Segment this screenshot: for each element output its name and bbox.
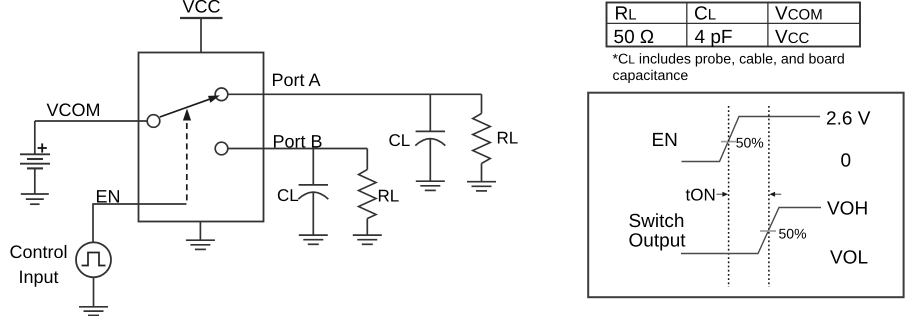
table column divider 2	[767, 3, 769, 47]
tON arrow right	[775, 193, 782, 195]
capacitor CL (Port A)	[416, 130, 445, 132]
switch output waveform	[681, 208, 821, 254]
wire EN from pulse source to box	[93, 204, 187, 243]
svg-text:EN: EN	[652, 130, 678, 151]
dotted cursor line left (50% of EN)	[728, 106, 730, 287]
svg-text:RL: RL	[615, 4, 637, 25]
svg-text:Port A: Port A	[272, 70, 321, 90]
switch box U1	[139, 53, 264, 222]
tON arrow left	[717, 193, 724, 195]
wire RL (Port B) to ground	[366, 219, 368, 236]
EN waveform 50% tick	[721, 141, 736, 143]
wire box to ground	[199, 222, 201, 241]
svg-text:VCC: VCC	[775, 27, 810, 48]
svg-text:4 pF: 4 pF	[695, 27, 733, 48]
svg-text:VCOM: VCOM	[775, 4, 823, 25]
wire to resistor RL (Port A)	[481, 94, 483, 113]
wire to capacitor CL (Port B)	[312, 149, 314, 185]
table column divider 1	[686, 3, 688, 47]
svg-text:CL: CL	[277, 186, 299, 205]
ground (pulse source)	[79, 306, 108, 308]
wire Port B	[228, 148, 367, 150]
wire CL (Port B) to ground	[312, 193, 314, 236]
svg-text:VCC: VCC	[183, 0, 221, 17]
ground (switch box)	[186, 239, 215, 241]
svg-text:RL: RL	[378, 186, 400, 205]
svg-text:*CL includes probe, cable, and: *CL includes probe, cable, and board	[613, 52, 845, 68]
svg-text:Switch: Switch	[629, 211, 685, 232]
svg-text:50 Ω: 50 Ω	[614, 27, 655, 48]
wire to capacitor CL (Port A)	[429, 94, 431, 131]
switch pole node (VCOM)	[147, 115, 160, 128]
wire VCOM to pole	[35, 120, 147, 122]
svg-text:RL: RL	[497, 129, 519, 148]
switch throw node Port A	[215, 88, 228, 101]
EN waveform	[682, 117, 821, 162]
svg-text:Control: Control	[10, 242, 68, 262]
wire CL (Port A) to ground	[429, 139, 431, 181]
resistor RL (Port B)	[359, 170, 377, 219]
svg-text:CL: CL	[389, 131, 411, 150]
svg-text:50%: 50%	[736, 134, 764, 150]
table row divider	[607, 22, 861, 24]
ground (RL Port A)	[467, 181, 496, 183]
EN dashed actuation line with arrow	[186, 123, 188, 204]
wire to resistor RL (Port B)	[366, 149, 368, 170]
ground (RL Port B)	[353, 234, 382, 236]
pulse source V2	[76, 242, 111, 277]
svg-text:CL: CL	[694, 4, 716, 25]
svg-text:tON: tON	[686, 185, 716, 204]
svg-text:capacitance: capacitance	[613, 68, 689, 84]
timing diagram frame	[588, 93, 903, 298]
wire VCOM down to battery	[34, 121, 36, 154]
svg-text:VOH: VOH	[827, 198, 868, 219]
switch blade with arrow	[160, 99, 211, 117]
pulse waveform glyph	[82, 253, 106, 266]
svg-text:0: 0	[841, 151, 852, 172]
wire VCC to switch box	[200, 18, 202, 53]
resistor RL (Port A)	[473, 114, 491, 164]
output waveform 50% tick	[760, 230, 776, 232]
ground (battery)	[21, 193, 49, 195]
switch throw node Port B	[215, 142, 228, 155]
capacitor CL (Port B)	[299, 184, 328, 186]
svg-text:50%: 50%	[779, 225, 807, 241]
battery V1 plates	[20, 153, 50, 155]
power rail VCC bar	[180, 17, 223, 19]
svg-text:2.6 V: 2.6 V	[826, 108, 871, 129]
svg-text:Output: Output	[629, 230, 687, 251]
wire battery to ground	[34, 168, 36, 194]
parameter table frame	[607, 3, 861, 47]
battery plus sign	[38, 147, 47, 149]
svg-text:Input: Input	[19, 267, 59, 287]
ground (CL Port A)	[416, 180, 445, 182]
ground (CL Port B)	[299, 234, 328, 236]
dotted cursor line right (50% of output)	[768, 106, 770, 287]
svg-text:VCOM: VCOM	[47, 100, 101, 120]
wire RL (Port A) to ground	[481, 164, 483, 182]
svg-text:VOL: VOL	[830, 247, 868, 268]
wire pulse source to ground	[93, 277, 95, 307]
wire Port A	[228, 93, 482, 95]
